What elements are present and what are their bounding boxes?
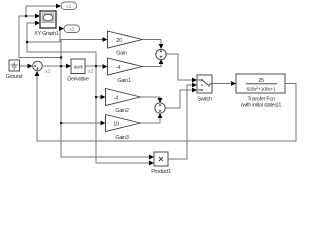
- transfer fcn block: [236, 74, 285, 109]
- node x2 junction to x2 tag: [26, 41, 28, 43]
- wire x2 down to product in2: [96, 66, 151, 163]
- wire switch out to transfer fcn: [212, 83, 233, 85]
- arrowhead into derivative: [66, 64, 71, 69]
- arrowhead into x2 tag: [59, 26, 64, 31]
- wire ground to sum A: [19, 65, 30, 67]
- wire x1 to XY port1: [19, 16, 61, 58]
- node x1 junction to XY port1 line: [60, 56, 62, 58]
- wire x2 branch to gain2: [96, 96, 102, 98]
- wire x2 riser up to XY port2: [27, 23, 96, 66]
- svg-text:Gain1: Gain1: [117, 78, 130, 84]
- arrowhead into switch pin 3: [192, 88, 197, 93]
- svg-text:25: 25: [258, 78, 264, 84]
- node x1 junction to x1 tag: [25, 15, 27, 17]
- wire sum C out to switch in3: [165, 90, 194, 108]
- node x1 junction to gain3: [60, 122, 62, 124]
- svg-text:x1: x1: [45, 69, 50, 75]
- wire transfer fcn feedback to sum A bottom: [37, 74, 296, 141]
- wire x1 branch to gain 10: [61, 122, 102, 124]
- svg-text:Gain: Gain: [116, 51, 127, 57]
- derivative block: [67, 59, 93, 83]
- wire x1 branch to x1 tag: [26, 6, 58, 16]
- wire sum A to derivative (x1 net): [43, 65, 68, 67]
- arrowhead into gain R20: [103, 37, 108, 42]
- arrowhead into sum A bottom: [35, 71, 40, 76]
- sum B (upper right sum): [156, 49, 166, 59]
- gain2 -4: [106, 89, 141, 115]
- svg-text:20: 20: [116, 38, 122, 44]
- arrowhead into sum B top: [159, 44, 164, 49]
- node x2 junction to gain2: [95, 96, 97, 98]
- x2 goto tag: [64, 25, 80, 33]
- svg-text:(with initial states)1: (with initial states)1: [241, 103, 281, 109]
- arrowhead into transfer fcn: [231, 81, 236, 86]
- arrowhead into gain3: [101, 121, 106, 126]
- arrowhead into switch pin 2: [192, 83, 197, 88]
- arrowhead into sum C bottom: [158, 113, 163, 118]
- sum C (lower right sum): [155, 103, 165, 113]
- wire gain 20 out to sum B top: [142, 40, 161, 47]
- svg-text:Switch: Switch: [197, 97, 212, 103]
- ground block: [6, 60, 23, 80]
- arrowhead into sum B bottom: [159, 59, 164, 64]
- wire gain1 out to sum B bottom: [142, 62, 161, 67]
- wire gain2 out to sum C top: [140, 97, 160, 100]
- arrowhead into XY graph port 2: [35, 21, 40, 26]
- svg-text:Ground: Ground: [6, 74, 23, 80]
- node x2 junction at gain1 input wire: [95, 65, 97, 67]
- svg-text:Gain3: Gain3: [115, 135, 128, 141]
- arrowhead into product pin 2: [149, 161, 154, 166]
- svg-text:Product1: Product1: [151, 169, 171, 175]
- arrowhead into gain2: [101, 95, 106, 100]
- x1 goto tag: [61, 2, 77, 10]
- gain 20: [108, 31, 143, 57]
- gain3 10: [106, 115, 141, 142]
- arrowhead into gain1: [103, 64, 108, 69]
- arrowhead into product pin 1: [149, 155, 154, 160]
- svg-text:x1: x1: [66, 4, 71, 10]
- product block: [151, 152, 171, 175]
- arrowhead into sum C top: [158, 98, 163, 103]
- svg-text:-4: -4: [116, 65, 121, 71]
- svg-text:Derivative: Derivative: [67, 77, 89, 83]
- svg-text:-4: -4: [114, 95, 119, 101]
- arrowhead into x1 tag: [56, 4, 61, 9]
- svg-text:Gain2: Gain2: [115, 108, 128, 114]
- svg-text:10: 10: [113, 121, 119, 127]
- sum A (left sum): [33, 61, 51, 75]
- wire x1 riser up to gain 20: [61, 40, 104, 67]
- wire derivative out to gain -4 (x2 net): [85, 65, 104, 67]
- gain1 -4: [108, 58, 143, 84]
- switch block: [197, 75, 212, 103]
- svg-text:XY Graph1: XY Graph1: [34, 31, 59, 37]
- wire gain3 out to sum C bottom: [140, 116, 160, 123]
- node x1 junction at derivative input wire: [60, 65, 62, 67]
- arrowhead into sum A: [28, 64, 33, 69]
- wire product out to switch in2: [168, 85, 194, 159]
- svg-text:x2: x2: [69, 27, 74, 33]
- arrowhead into switch pin 1: [192, 78, 197, 83]
- wire x2 branch to x2 tag: [27, 29, 61, 43]
- svg-text:du/dt: du/dt: [74, 65, 84, 70]
- wire x1 down to product in1: [61, 66, 151, 157]
- arrowhead into XY graph port 1: [35, 14, 40, 19]
- wire sum B out to switch in1: [166, 54, 194, 80]
- XY Graph block: [34, 11, 59, 37]
- svg-text:x2: x2: [88, 69, 93, 75]
